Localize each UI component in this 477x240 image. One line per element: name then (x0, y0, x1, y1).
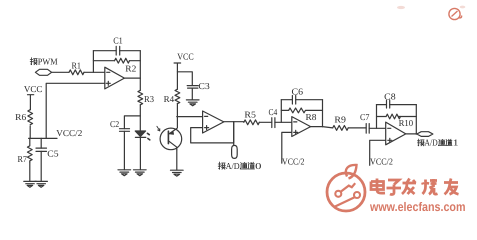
wire R1 to op-amp U1 inverting input (84, 71, 105, 73)
svg-text:C3: C3 (198, 81, 210, 91)
glyph 接 (3) (417, 139, 424, 146)
glyph 子 (387, 180, 402, 195)
connector PWM pad (35, 69, 51, 75)
resistor R5 (244, 120, 260, 125)
wire output to connector 0 (233, 122, 235, 146)
glyph 电 (371, 179, 385, 194)
capacitor C4 (272, 118, 275, 128)
svg-text:C1: C1 (113, 36, 123, 46)
wire collector node to U2 inverting input (177, 116, 203, 118)
power VCC left tick (28, 95, 34, 110)
wire C8 rail right (390, 104, 417, 106)
wire C1 top rail right (120, 50, 141, 52)
svg-text:R3: R3 (144, 94, 154, 104)
svg-text:R6: R6 (15, 112, 27, 122)
decorative faint smudge left (397, 6, 405, 9)
wire VCC to C3 branch (177, 72, 192, 86)
wire R3 to LED (139, 105, 141, 131)
capacitor C6 (292, 96, 295, 105)
ground below C2 (118, 170, 131, 176)
capacitor C8 (387, 100, 390, 108)
wire R5 to C4 (259, 121, 271, 123)
ground below C3 (186, 100, 199, 106)
svg-text:R8: R8 (306, 112, 318, 122)
wire feedback right vertical down to R3 (139, 51, 141, 91)
svg-text:VCC/2: VCC/2 (282, 157, 305, 167)
wire R2 rail right (130, 60, 141, 62)
svg-text:C4: C4 (269, 107, 278, 117)
wire feedback right vertical U4 (415, 105, 417, 135)
glyph 接 (30, 58, 37, 65)
svg-text:1: 1 (453, 138, 459, 148)
wire R10 rail right (398, 116, 416, 118)
svg-text:0: 0 (255, 161, 262, 171)
wire R8 rail left (281, 109, 288, 111)
wire U3 noninverting to VCC/2 (282, 132, 292, 163)
wire R8 rail right (306, 109, 323, 111)
resistor R8 (289, 108, 306, 113)
wire feedback left vertical (92, 51, 94, 73)
wire R6 to VCC/2 rail (29, 126, 31, 138)
svg-text:VCC/2: VCC/2 (370, 157, 393, 167)
wire VCC/2 rail (29, 137, 57, 139)
labels (Latin) (15, 36, 413, 167)
svg-text:C5: C5 (47, 148, 59, 158)
ground below R7 (24, 181, 36, 187)
glyph 友 (444, 179, 459, 195)
capacitor C2 (120, 129, 130, 170)
resistor R10 (386, 114, 400, 119)
capacitor C3 (187, 86, 198, 100)
power VCC mid tick (174, 63, 181, 89)
ground below Q1 (171, 170, 184, 176)
svg-text:C7: C7 (360, 112, 370, 122)
svg-text:R2: R2 (125, 64, 136, 74)
svg-text:VCC: VCC (177, 51, 194, 61)
ground below C5 (35, 181, 47, 187)
wire U1 output (124, 77, 140, 79)
wire R9 to C7 (348, 127, 366, 129)
watermark logo circle (327, 165, 365, 211)
resistor R6 (28, 110, 33, 125)
wire U2 output to R5 (224, 121, 244, 123)
capacitor C1 (116, 46, 120, 55)
wire PWM pad to R1 (52, 71, 69, 73)
op-amp U1 (105, 67, 125, 89)
op-amp U4 (386, 122, 406, 145)
wire C4 to U3 inverting input (275, 121, 292, 123)
wire U4 feedback left vertical (376, 105, 378, 129)
wire U4 output (406, 133, 417, 135)
connector A/D channel 0 pad (232, 145, 238, 158)
glyph 道 (248, 162, 255, 169)
wire R10 rail left (377, 116, 387, 118)
wire C6 rail left (281, 99, 292, 101)
ground below LED (134, 170, 147, 176)
wire C2 tap (124, 116, 140, 129)
svg-text:PWM: PWM (38, 57, 58, 67)
glyph 通 (2) (438, 139, 444, 145)
svg-text:R7: R7 (18, 154, 28, 164)
wire U2 feedback loop (191, 122, 234, 143)
svg-text:C8: C8 (384, 92, 396, 102)
decorative faint smudge right (460, 6, 466, 9)
resistor R3 (138, 90, 143, 105)
resistor R9 (333, 126, 349, 131)
wire C1 top rail left (93, 50, 116, 52)
glyph 烧 (423, 179, 438, 194)
svg-text:C6: C6 (292, 87, 304, 97)
wire U3 feedback left vertical (280, 100, 282, 123)
capacitor C7 (366, 124, 369, 134)
wire C6 rail right (296, 99, 323, 101)
resistor R1 (69, 70, 84, 75)
wire R2 rail left (93, 60, 114, 62)
svg-text:C2: C2 (110, 119, 119, 129)
glyph 发 (402, 179, 416, 195)
wire U4 noninverting to VCC/2 (370, 140, 386, 165)
glyph 通 (240, 162, 247, 169)
wire U3 output to R9 (311, 127, 333, 128)
wire U1 noninverting input (46, 83, 105, 138)
watermark text 电子发烧友 (371, 179, 459, 195)
svg-text:A/D: A/D (424, 138, 438, 148)
wire C8 rail left (377, 104, 387, 106)
wire R7 to ground (29, 162, 31, 181)
capacitor C5 (36, 138, 47, 181)
node label 接A/D通道1 (417, 139, 452, 146)
svg-text:VCC: VCC (24, 84, 43, 94)
wire emitter to ground (176, 150, 178, 170)
wire feedback right vertical U3 (322, 100, 324, 127)
resistor R4 (175, 89, 180, 104)
op-amp U3 (292, 117, 311, 137)
glyph 道 (2) (446, 139, 452, 145)
svg-text:R1: R1 (72, 61, 82, 71)
svg-text:R9: R9 (334, 115, 346, 125)
wire C7 to U4 inverting input (369, 127, 386, 129)
wire R4 to phototransistor collector (176, 103, 178, 128)
resistor R2 (115, 58, 130, 63)
node label 接PWM (30, 58, 37, 65)
svg-text:R5: R5 (244, 110, 256, 120)
connector A/D channel 1 pad (417, 132, 433, 137)
transistor Q1 phototransistor (157, 126, 182, 150)
svg-text:R10: R10 (399, 118, 414, 128)
node label 接A/D通道0 (218, 162, 254, 169)
op-amp U2 voltage follower (203, 111, 224, 133)
svg-text:A/D: A/D (226, 161, 240, 171)
LED D1 (135, 131, 150, 170)
watermark small red mark top right (449, 8, 462, 19)
resistor R7 (27, 138, 32, 162)
svg-text:www.elecfans.com: www.elecfans.com (369, 200, 465, 214)
node 接PWM label (0, 0, 1, 1)
CJK drawn glyphs (30, 58, 452, 170)
svg-text:VCC/2: VCC/2 (56, 128, 82, 138)
svg-text:R4: R4 (164, 94, 175, 104)
glyph 接 (2) (218, 162, 225, 169)
